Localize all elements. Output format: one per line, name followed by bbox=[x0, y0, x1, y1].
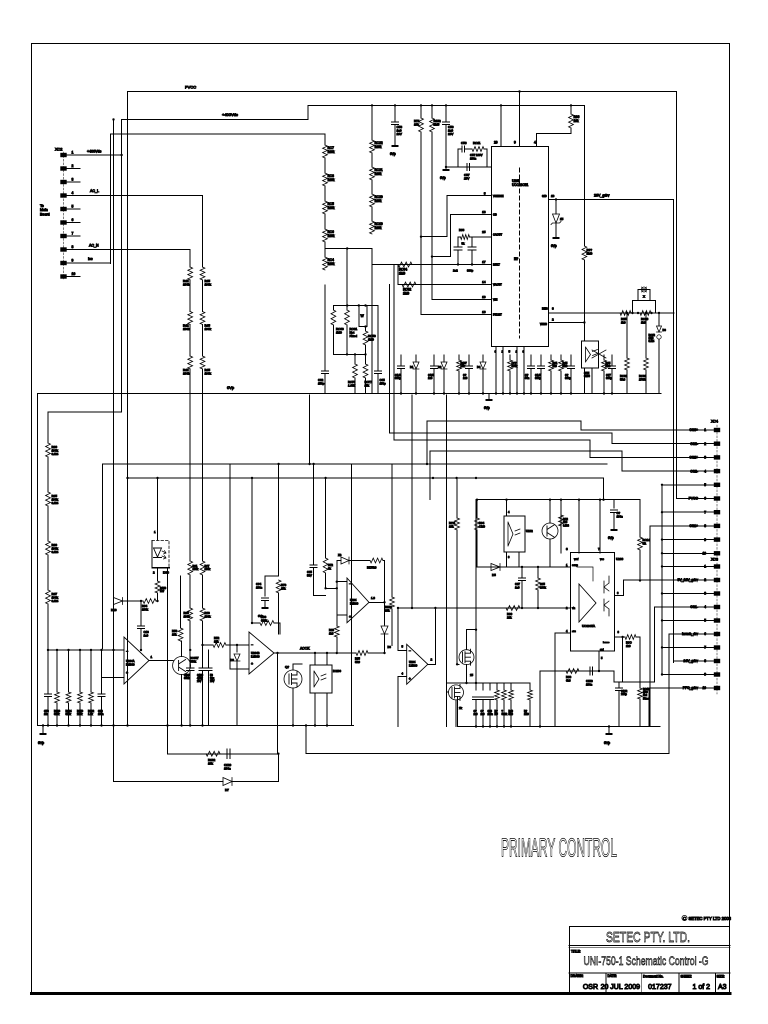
connector XC3 pin 2 net 5V_12V_gdrv bbox=[714, 578, 720, 582]
svg-text:2: 2 bbox=[704, 442, 706, 446]
resistor 1M0 bbox=[583, 105, 585, 246]
wire bbox=[466, 665, 468, 683]
component C141 bbox=[400, 355, 402, 366]
svg-text:5V_12V_gdrv: 5V_12V_gdrv bbox=[677, 578, 698, 582]
svg-text:100n: 100n bbox=[470, 156, 477, 160]
component C? 1u0 bbox=[482, 700, 484, 727]
svg-text:G/D: G/D bbox=[542, 194, 547, 198]
svg-text:XC3: XC3 bbox=[711, 558, 718, 562]
connector XC2 pin 10 bbox=[60, 274, 66, 278]
wire bbox=[333, 305, 377, 307]
svg-text:6k8: 6k8 bbox=[553, 364, 558, 368]
wire VAOUT line bbox=[398, 284, 492, 286]
svg-text:0.5%: 0.5% bbox=[52, 452, 59, 456]
component C?? bbox=[509, 355, 511, 360]
svg-text:2: 2 bbox=[72, 164, 74, 168]
jumper link X bbox=[633, 301, 656, 314]
connector XC2 pin 4 bbox=[60, 193, 66, 197]
wire bbox=[293, 664, 302, 670]
resistor R65 100k bbox=[537, 567, 539, 578]
svg-text:LM339: LM339 bbox=[126, 662, 135, 666]
wire bbox=[276, 652, 278, 654]
ground 0Vp bbox=[608, 725, 610, 727]
svg-text:220p: 220p bbox=[621, 692, 627, 696]
svg-text:+400Vdc: +400Vdc bbox=[222, 112, 238, 117]
resistor RC82 5R6 bbox=[626, 313, 628, 358]
svg-text:100k: 100k bbox=[184, 614, 191, 618]
svg-text:15k: 15k bbox=[281, 586, 286, 590]
net PVCC top rail bbox=[129, 91, 677, 93]
capacitor C129 100n bbox=[226, 749, 228, 758]
net +400Vdc rail bbox=[122, 119, 308, 121]
connector XC3 pin 1 bbox=[714, 564, 720, 568]
svg-text:25: 25 bbox=[470, 673, 474, 677]
svg-text:ISNS: ISNS bbox=[542, 308, 548, 311]
svg-text:UC3845A: UC3845A bbox=[582, 624, 595, 628]
svg-text:0.5%: 0.5% bbox=[649, 340, 655, 343]
svg-text:100k: 100k bbox=[183, 372, 190, 376]
wire bbox=[639, 637, 641, 682]
svg-text:100n: 100n bbox=[617, 514, 624, 518]
component D2 bbox=[443, 355, 445, 362]
connector XC2 pin 7 bbox=[60, 234, 66, 238]
wire CS1+ drop bbox=[649, 526, 651, 727]
component C? bbox=[570, 355, 572, 366]
resistor R64 100k bbox=[143, 599, 156, 604]
svg-text:XC2: XC2 bbox=[55, 148, 62, 152]
svg-text:270R: 270R bbox=[639, 377, 646, 381]
ground 0Vp bbox=[42, 724, 44, 726]
svg-text:D1: D1 bbox=[410, 365, 414, 369]
svg-text:0.5%: 0.5% bbox=[52, 599, 59, 603]
net 0Vp lower bus left bbox=[38, 725, 354, 727]
svg-text:5: 5 bbox=[704, 483, 706, 487]
feedback diode D10 bbox=[114, 598, 123, 605]
connector XC4 pin 10 bbox=[714, 551, 720, 555]
resistor R68 5k bbox=[461, 235, 470, 240]
wire bbox=[469, 236, 472, 238]
connector XC4 pin 7 bbox=[714, 510, 720, 514]
op-amp U204A LM339 bbox=[124, 637, 149, 684]
diode D6 bbox=[236, 644, 238, 646]
svg-text:180k: 180k bbox=[328, 150, 335, 154]
resistor R?84 820k bbox=[68, 650, 70, 692]
resistor RC13 0R0 not fitted bbox=[638, 688, 643, 699]
svg-text:D10: D10 bbox=[111, 608, 117, 612]
wire bbox=[475, 567, 477, 683]
diode D7 line bbox=[114, 781, 224, 783]
resistor R52 10k bbox=[203, 644, 214, 646]
svg-text:16V: 16V bbox=[397, 132, 402, 136]
svg-text:X: X bbox=[643, 295, 645, 299]
resistor RC81 270R bbox=[645, 313, 647, 358]
wire bbox=[397, 265, 399, 285]
resistor R28 1k0 bbox=[334, 626, 339, 637]
capacitor C103 470k bbox=[199, 667, 206, 669]
svg-text:1M5: 1M5 bbox=[434, 123, 440, 127]
svg-text:15k: 15k bbox=[365, 383, 370, 387]
svg-text:Inrush_drv: Inrush_drv bbox=[682, 632, 698, 636]
svg-text:220k: 220k bbox=[77, 713, 83, 716]
svg-text:LM339: LM339 bbox=[409, 663, 418, 667]
svg-text:330p: 330p bbox=[467, 269, 474, 273]
feedback diode bbox=[337, 560, 341, 562]
resistor chain R86 R85 R89 R87 100k 0.5% bbox=[46, 443, 51, 457]
svg-text:PKLMT: PKLMT bbox=[493, 313, 502, 317]
connector XC3 pin 6 net Inrush_drv bbox=[714, 632, 720, 636]
resistor R63 6k8 bbox=[566, 669, 579, 674]
svg-text:100n: 100n bbox=[224, 767, 231, 771]
svg-text:10: 10 bbox=[72, 272, 76, 276]
transistor Q? bbox=[542, 523, 558, 539]
wire PKLMT bbox=[421, 132, 492, 315]
U206 pin 7 vcc bbox=[599, 500, 601, 553]
wire box bottom rail bbox=[476, 566, 571, 568]
wire PFC_gdrv run bbox=[648, 688, 650, 727]
svg-text:4: 4 bbox=[72, 191, 74, 195]
svg-text:CS1-: CS1- bbox=[690, 605, 698, 609]
svg-text:15k: 15k bbox=[461, 364, 466, 368]
svg-text:10: 10 bbox=[702, 552, 706, 556]
svg-text:100k: 100k bbox=[205, 327, 212, 331]
optocoupler drive Q bbox=[592, 350, 606, 358]
title block bbox=[570, 927, 730, 993]
resistor R70 15k bbox=[276, 580, 281, 593]
wire bbox=[455, 700, 457, 727]
svg-text:+: + bbox=[251, 662, 253, 666]
wire non-inverting input bbox=[103, 676, 125, 678]
connector XC4 pin 2 net CS3- bbox=[714, 442, 720, 446]
resistor R66 10k bbox=[570, 105, 572, 114]
net 0Vp lower bus right bbox=[457, 726, 660, 728]
IC U206 UC3845A bbox=[571, 553, 615, 652]
capacitor C?93 850k bbox=[189, 650, 191, 668]
svg-text:0Vp: 0Vp bbox=[390, 152, 396, 156]
svg-text:C: C bbox=[683, 916, 686, 921]
svg-text:D8: D8 bbox=[663, 328, 667, 332]
svg-text:1.60k: 1.60k bbox=[348, 383, 355, 387]
wire bbox=[398, 676, 407, 678]
svg-text:CAOUT: CAOUT bbox=[493, 233, 502, 237]
ground 0Vp under U205 bbox=[488, 394, 490, 399]
optocoupler LED indicator bbox=[157, 478, 159, 540]
svg-text:820k: 820k bbox=[66, 713, 72, 716]
svg-text:CS2-: CS2- bbox=[690, 469, 698, 473]
svg-text:16: 16 bbox=[482, 310, 486, 314]
svg-text:100k: 100k bbox=[193, 567, 199, 571]
svg-text:56n: 56n bbox=[525, 376, 530, 380]
svg-text:Fitted: Fitted bbox=[643, 697, 650, 700]
wire bbox=[614, 681, 655, 683]
svg-text:10: 10 bbox=[702, 686, 706, 690]
svg-text:100k: 100k bbox=[183, 327, 190, 331]
svg-text:−: − bbox=[409, 649, 411, 653]
wire box top rail bbox=[476, 499, 604, 501]
wire VSENSE bbox=[421, 196, 492, 237]
svg-text:100k: 100k bbox=[205, 283, 212, 287]
svg-text:180k: 180k bbox=[375, 145, 382, 149]
svg-text:100n: 100n bbox=[256, 585, 263, 589]
U205 pin 9 VI feed bbox=[519, 92, 521, 147]
svg-text:ACOK: ACOK bbox=[300, 647, 310, 651]
svg-text:1k0: 1k0 bbox=[641, 320, 646, 324]
svg-text:1M0: 1M0 bbox=[587, 252, 593, 256]
resistor R?83 820k bbox=[56, 650, 58, 692]
svg-text:U206: U206 bbox=[616, 557, 624, 561]
svg-text:5R6: 5R6 bbox=[620, 377, 626, 381]
capacitor C59 1u0 16V bbox=[445, 105, 447, 122]
component C? bbox=[530, 355, 532, 366]
wire bbox=[278, 464, 280, 576]
capacitor C62 150p bbox=[324, 285, 326, 371]
svg-text:PFC_gdrv: PFC_gdrv bbox=[683, 686, 699, 690]
svg-text:1.2k: 1.2k bbox=[88, 713, 93, 716]
svg-text:LM339: LM339 bbox=[350, 601, 359, 605]
svg-text:330p: 330p bbox=[606, 376, 612, 380]
svg-text:10k: 10k bbox=[214, 639, 219, 643]
wire bbox=[181, 675, 183, 726]
svg-text:9: 9 bbox=[704, 538, 706, 542]
svg-text:6: 6 bbox=[704, 632, 706, 636]
svg-text:CM0: CM0 bbox=[479, 524, 485, 528]
capacitor C140 1n0 50V bbox=[313, 464, 315, 565]
wire op-amp 4 output bbox=[428, 663, 436, 665]
svg-text:1M0: 1M0 bbox=[368, 338, 374, 342]
diode D8 bbox=[384, 602, 386, 625]
component D1 bbox=[415, 355, 417, 362]
svg-text:5: 5 bbox=[704, 619, 706, 623]
wire CS3- run bbox=[390, 285, 613, 444]
svg-text:100k: 100k bbox=[205, 614, 212, 618]
svg-text:8: 8 bbox=[72, 245, 74, 249]
RC filter C56 RC11 bbox=[458, 149, 462, 167]
svg-text:D2: D2 bbox=[438, 365, 442, 369]
svg-text:0.5%: 0.5% bbox=[52, 501, 59, 505]
wire 5V_12V_gdrv run bbox=[623, 580, 630, 596]
capacitor C58 1u0 16V bbox=[394, 105, 396, 122]
wire bbox=[511, 682, 530, 684]
svg-text:100n: 100n bbox=[586, 682, 593, 686]
connector XC3 pin 10 net PFC_gdrv bbox=[714, 686, 720, 690]
svg-text:6: 6 bbox=[704, 497, 706, 501]
wire CS2+ run bbox=[394, 265, 590, 458]
svg-text:−: − bbox=[349, 582, 351, 586]
svg-text:4: 4 bbox=[704, 469, 706, 473]
svg-text:isense: isense bbox=[603, 642, 610, 644]
op-amp U204C LM339 bbox=[347, 578, 369, 623]
svg-text:100n: 100n bbox=[98, 713, 104, 716]
wire bbox=[314, 653, 316, 665]
op-amp 2 output ACOK bbox=[274, 652, 356, 654]
U205 bottom pin stub bbox=[495, 347, 497, 394]
connector XC2 pin 3 bbox=[60, 180, 66, 184]
resistor RC50 1M0 bbox=[365, 327, 367, 331]
svg-text:comp: comp bbox=[572, 564, 579, 567]
svg-text:DRAWN:: DRAWN: bbox=[571, 974, 584, 978]
resistor R?? 100k pair lower bbox=[188, 608, 193, 621]
capacitor C?? 100n at VCC bbox=[602, 499, 604, 501]
svg-text:RZ75k0: RZ75k0 bbox=[367, 566, 377, 570]
connector XC4 pin 3 net CS2+ bbox=[714, 455, 720, 459]
svg-text:E?: E? bbox=[514, 257, 518, 261]
svg-text:2n2: 2n2 bbox=[453, 269, 458, 273]
wire CAOUT stub bbox=[469, 236, 491, 238]
svg-text:−: − bbox=[251, 643, 253, 647]
wire bbox=[37, 394, 39, 726]
svg-text:ZB: ZB bbox=[338, 553, 342, 557]
svg-text:850k: 850k bbox=[190, 659, 197, 663]
svg-text:+: + bbox=[349, 615, 351, 619]
svg-text:16V: 16V bbox=[448, 132, 453, 136]
svg-text:0Vp: 0Vp bbox=[227, 385, 235, 390]
component R45 bbox=[560, 355, 562, 360]
wire bbox=[456, 697, 458, 727]
snubber R102 C129 line bbox=[168, 753, 279, 755]
wire bbox=[466, 630, 468, 650]
svg-text:180k: 180k bbox=[375, 172, 382, 176]
svg-text:1M0: 1M0 bbox=[524, 713, 529, 716]
diode D5 bbox=[491, 564, 500, 571]
U205 bottom pin stub bbox=[523, 347, 525, 394]
wire bbox=[457, 663, 459, 665]
resistor chain RC22 RC21 RC20 RC19 180k bbox=[371, 105, 373, 140]
svg-text:SHEET:: SHEET: bbox=[681, 975, 692, 979]
resistor R25 1k0 bbox=[620, 311, 631, 316]
svg-text:330p: 330p bbox=[535, 376, 541, 380]
wire AC_N drop bbox=[189, 250, 191, 268]
wire bbox=[429, 451, 431, 500]
op-amp 3 output bbox=[369, 601, 385, 603]
svg-text:IC0C: IC0C bbox=[163, 571, 169, 575]
component R? NF bbox=[496, 700, 498, 727]
zener D? protection bbox=[555, 198, 557, 200]
wire PVCC right drop to XC4 pin 6 bbox=[676, 92, 678, 499]
svg-text:180k: 180k bbox=[328, 178, 335, 182]
wire bbox=[325, 248, 372, 250]
svg-text:5R6: 5R6 bbox=[509, 713, 514, 716]
wire bbox=[265, 575, 279, 577]
svg-text:3: 3 bbox=[704, 592, 706, 596]
svg-text:1k0: 1k0 bbox=[626, 644, 631, 648]
svg-text:CS1+: CS1+ bbox=[689, 524, 698, 528]
ground 0Vp bbox=[555, 234, 557, 238]
connector XC3 pin 3 bbox=[714, 591, 720, 595]
capacitor C?8 22u 25V bbox=[208, 650, 210, 668]
connector XC4 pin 5 bbox=[714, 483, 720, 487]
svg-text:1u0: 1u0 bbox=[481, 713, 486, 716]
wire gate 2 bbox=[447, 691, 449, 693]
wire bbox=[333, 353, 366, 355]
resistor R119 1k bbox=[157, 568, 159, 582]
svg-text:CS3+: CS3+ bbox=[689, 428, 698, 432]
wire bbox=[102, 464, 104, 649]
svg-text:1k0: 1k0 bbox=[621, 320, 626, 324]
transistor Q? BC857 bbox=[173, 657, 191, 675]
svg-text:4: 4 bbox=[534, 141, 536, 145]
svg-text:MULT: MULT bbox=[493, 263, 500, 267]
resistor R?? 10k bbox=[456, 478, 458, 518]
wire bbox=[458, 236, 461, 238]
resistor RC 1k0 bbox=[625, 635, 636, 640]
capacitor C70 10n bbox=[47, 650, 49, 694]
component D4 bbox=[482, 355, 484, 362]
svg-text:SETEC PTY. LTD.: SETEC PTY. LTD. bbox=[606, 929, 690, 946]
wire opto second pin drop bbox=[167, 568, 169, 726]
svg-text:A3: A3 bbox=[718, 984, 727, 991]
wire minus input bbox=[337, 581, 347, 583]
wire MULT line bbox=[372, 264, 492, 266]
connector XC4 pin 1 net CS3+ bbox=[714, 428, 720, 432]
connector XC3 pin 8 net 24V_gdrv bbox=[714, 659, 720, 663]
svg-text:UCC28C51: UCC28C51 bbox=[512, 183, 529, 187]
resistor chain RC7 RC8 RC5 RC6 RC4 180k bbox=[324, 134, 326, 145]
svg-text:1: 1 bbox=[704, 428, 706, 432]
wire VIN feed bbox=[432, 132, 492, 300]
wire bbox=[229, 464, 231, 669]
op-amp U204B LM339 bbox=[249, 632, 274, 674]
svg-text:IC100: IC100 bbox=[333, 669, 341, 673]
U205 pin 20 VCC feed bbox=[500, 105, 502, 146]
wire plus input bbox=[337, 614, 347, 616]
resistor R152 1M5 bbox=[431, 105, 433, 118]
wire bbox=[251, 478, 253, 623]
wire inrush runner bbox=[306, 726, 669, 754]
svg-text:26V_gdrv: 26V_gdrv bbox=[594, 194, 610, 198]
resistor R99 22k bbox=[506, 606, 520, 611]
svg-text:10k: 10k bbox=[385, 608, 390, 612]
U205 bottom pin stub bbox=[516, 347, 518, 394]
wire bbox=[314, 595, 326, 597]
wire 26V_gdrv drop bbox=[673, 200, 675, 663]
svg-text:U102: U102 bbox=[526, 529, 533, 533]
wire bbox=[518, 552, 520, 567]
svg-text:24V_gdrv: 24V_gdrv bbox=[683, 659, 698, 663]
component C98 100n bbox=[489, 700, 491, 727]
ground 0Vp bbox=[445, 167, 447, 170]
svg-text:7: 7 bbox=[704, 510, 706, 514]
resistor RC14 0R bbox=[639, 500, 641, 537]
resistor R?82 1.2k bbox=[90, 650, 92, 692]
svg-text:19: 19 bbox=[482, 295, 486, 299]
svg-text:SETEC PTY LTD 2008: SETEC PTY LTD 2008 bbox=[689, 916, 732, 921]
wire AC_L drop bbox=[202, 196, 204, 268]
wire bbox=[307, 105, 309, 119]
svg-text:8: 8 bbox=[704, 659, 706, 663]
connector XC2 pin 5 bbox=[60, 207, 66, 211]
svg-text:017237: 017237 bbox=[648, 984, 671, 991]
svg-text:850k: 850k bbox=[184, 677, 190, 680]
svg-text:100k: 100k bbox=[183, 283, 190, 287]
svg-text:PVCC: PVCC bbox=[689, 497, 699, 501]
svg-text:CS3-: CS3- bbox=[690, 442, 698, 446]
resistor R84 0M0 bbox=[476, 499, 478, 501]
svg-text:PRIMARY CONTROL: PRIMARY CONTROL bbox=[501, 833, 617, 863]
svg-text:7: 7 bbox=[704, 646, 706, 650]
resistor R95 5R0 bbox=[356, 651, 368, 656]
svg-text:Isc: Isc bbox=[88, 257, 93, 261]
svg-text:CS2+: CS2+ bbox=[689, 456, 698, 460]
svg-text:1.3: 1.3 bbox=[371, 596, 375, 600]
svg-text:4: 4 bbox=[704, 605, 706, 609]
svg-text:LM339: LM339 bbox=[251, 654, 260, 658]
wire +400Vdc to XC2 pin 1 bbox=[121, 120, 123, 156]
svg-text:180k: 180k bbox=[328, 206, 335, 210]
svg-text:Q?: Q? bbox=[285, 665, 289, 669]
svg-text:+: + bbox=[126, 671, 128, 675]
resistor R62 6k8 bbox=[559, 515, 564, 526]
ground 0Vp bbox=[394, 142, 396, 146]
wire bbox=[277, 754, 279, 782]
